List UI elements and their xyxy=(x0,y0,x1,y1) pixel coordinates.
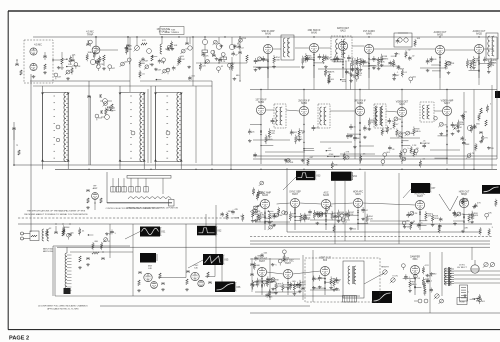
wire x148 vertical xyxy=(147,89,149,163)
component cluster top-mid B xyxy=(162,41,189,71)
components below V404 xyxy=(344,207,373,230)
wire x430 vertical xyxy=(429,252,431,313)
svg-text:DAMPER: DAMPER xyxy=(410,256,420,259)
bus wire y165 xyxy=(14,164,497,166)
capacitor C105 xyxy=(86,40,90,45)
wire x345 vertical xyxy=(344,181,346,241)
svg-text:V36: V36 xyxy=(236,286,241,289)
svg-text:MATCH 300: MATCH 300 xyxy=(43,250,53,253)
tube V202 6AU6 xyxy=(309,43,318,52)
caption lower-left 1 xyxy=(38,305,88,308)
interlock xyxy=(414,299,428,303)
svg-text:10K: 10K xyxy=(306,219,310,221)
svg-text:1MEG: 1MEG xyxy=(326,72,332,74)
wire sound row link3 xyxy=(319,47,331,49)
svg-text:V34: V34 xyxy=(353,175,358,178)
svg-text:470K: 470K xyxy=(99,64,104,66)
balun coil xyxy=(42,229,49,241)
svg-text:10K: 10K xyxy=(290,162,294,164)
svg-text:47K: 47K xyxy=(464,227,468,229)
wire vif link4 xyxy=(386,111,397,112)
svg-text:330K: 330K xyxy=(399,69,404,71)
svg-text:100K: 100K xyxy=(434,218,439,220)
svg-text:1MEG: 1MEG xyxy=(87,52,93,54)
component cluster antenna band xyxy=(45,225,85,239)
svg-text:2.2K: 2.2K xyxy=(369,218,374,220)
tube socket on T103 xyxy=(166,131,170,135)
wire sound row link4 xyxy=(352,45,364,47)
ground (trap) xyxy=(32,75,36,78)
capacitor C108 xyxy=(126,36,130,52)
label RATIO DET xyxy=(337,27,350,33)
components below V203 xyxy=(330,51,358,78)
wire x399 vertical xyxy=(398,173,400,244)
svg-text:2.2K: 2.2K xyxy=(204,56,209,58)
phase splitter V wires xyxy=(439,194,458,211)
mixer enclosure xyxy=(55,247,100,296)
component cluster sound row gap xyxy=(388,54,416,84)
wire x474 vertical xyxy=(473,90,475,170)
component cluster top band extra xyxy=(139,59,196,81)
wire x212 vertical xyxy=(211,81,213,165)
wire low link2 xyxy=(293,271,321,274)
tube V205 6AQ5 xyxy=(435,45,444,54)
svg-text:V33: V33 xyxy=(316,175,321,178)
svg-text:APPLICABLE NOTED 25, 75, MFD: APPLICABLE NOTED 25, 75, MFD xyxy=(47,308,79,311)
components below V402 xyxy=(282,208,312,230)
waveform inset W7 xyxy=(215,282,241,293)
svg-text:470K: 470K xyxy=(241,38,246,40)
svg-text:100K: 100K xyxy=(275,60,280,62)
svg-text:6BQ6: 6BQ6 xyxy=(461,194,468,196)
svg-text:1MEG: 1MEG xyxy=(72,66,78,68)
capacitor C112 xyxy=(185,37,189,44)
svg-text:V32: V32 xyxy=(217,230,222,233)
tube V503 6K6 xyxy=(320,266,329,275)
svg-text:47K: 47K xyxy=(271,133,275,135)
svg-text:AGC: AGC xyxy=(324,192,329,195)
svg-text:A COMPONENT FOLLOWED INDICATED: A COMPONENT FOLLOWED INDICATED CHANNELS xyxy=(38,305,88,308)
svg-text:FUSE: FUSE xyxy=(459,301,465,303)
svg-text:100K: 100K xyxy=(255,265,260,267)
pot R104 (volume) xyxy=(65,70,70,75)
svg-text:6SN7: 6SN7 xyxy=(417,196,423,198)
tube V403 6AU6 xyxy=(321,199,330,208)
left feed wire x14 xyxy=(13,122,15,165)
svg-text:1MEG: 1MEG xyxy=(253,285,259,287)
IF ladder transformer T101 xyxy=(41,93,70,162)
tube V108 agc xyxy=(100,99,112,104)
caption line 2 xyxy=(24,213,88,216)
tube V105 xyxy=(202,37,207,45)
bus wire y86 left xyxy=(33,85,212,87)
wire W2 riser xyxy=(205,214,207,226)
wire x89 vertical xyxy=(88,81,90,165)
IF ladder transformer T103 xyxy=(154,93,183,162)
wire vif row y140 xyxy=(253,138,420,142)
coil taps L1 xyxy=(67,255,72,290)
svg-text:6CB6: 6CB6 xyxy=(258,102,264,104)
fine tuning caption xyxy=(160,27,184,35)
component cluster damper area xyxy=(402,264,438,296)
wire x151 vertical xyxy=(150,86,152,163)
components below V405 xyxy=(406,210,439,230)
label AUDIO OUT xyxy=(473,30,486,36)
pix IF transformer T301 xyxy=(274,104,286,128)
wire vif row y152 xyxy=(265,150,460,154)
svg-text:1MEG: 1MEG xyxy=(411,284,417,286)
label AUDIO OUT xyxy=(434,31,447,37)
pix IF transformer T302 xyxy=(318,104,330,128)
svg-text:22K: 22K xyxy=(96,50,100,52)
svg-text:330K: 330K xyxy=(380,62,385,64)
component cluster sync band left-edge xyxy=(252,181,265,200)
pix IF transformer T303 xyxy=(374,104,386,128)
svg-text:HEIGHT: HEIGHT xyxy=(381,267,390,269)
wire top right drops xyxy=(268,53,479,90)
tube V501 6SN7 xyxy=(257,267,266,276)
svg-text:6SN7: 6SN7 xyxy=(292,194,298,196)
component cluster ratio out xyxy=(345,69,363,82)
wire x313 lower xyxy=(312,250,314,302)
svg-text:2.2K: 2.2K xyxy=(296,287,301,289)
dashed boundary y236 xyxy=(250,236,492,238)
tube V102 xyxy=(92,46,100,54)
label VERT OUT xyxy=(319,258,331,263)
svg-text:AMP: AMP xyxy=(93,187,98,190)
tube V106 xyxy=(216,37,222,49)
svg-text:330K: 330K xyxy=(270,292,275,294)
tube V305 6AC7 xyxy=(442,106,451,115)
wire mixer out xyxy=(158,277,186,279)
ant caption stack xyxy=(43,248,53,253)
svg-text:6AU6: 6AU6 xyxy=(323,194,329,197)
svg-text:330K: 330K xyxy=(465,144,470,146)
sound takeoff coil xyxy=(160,36,163,54)
svg-text:10K: 10K xyxy=(174,45,178,47)
wire x90.5 vertical xyxy=(90,96,92,165)
resistor R110 xyxy=(150,55,154,66)
bus wire y313 right xyxy=(250,312,500,314)
wire sound row link6 xyxy=(445,49,475,51)
svg-text:47K: 47K xyxy=(142,40,146,42)
label RF AMP xyxy=(93,186,98,191)
components below V302 xyxy=(290,116,319,164)
pointer to W8 xyxy=(403,189,411,198)
brightness pot xyxy=(434,294,444,304)
ratio det verticals xyxy=(346,58,355,90)
junction dots ant xyxy=(55,223,70,224)
resistor R106 xyxy=(102,55,106,70)
audio coupling box xyxy=(394,33,412,47)
tuner base bar xyxy=(107,200,174,207)
svg-text:6K6: 6K6 xyxy=(323,260,328,262)
sync enclosure xyxy=(287,168,480,232)
pointer to W1 xyxy=(125,231,141,239)
pointer to W6 xyxy=(188,260,203,268)
svg-text:10K: 10K xyxy=(402,132,406,134)
svg-text:470K: 470K xyxy=(329,154,334,156)
svg-text:V35: V35 xyxy=(224,259,229,262)
wire x133 vertical xyxy=(132,224,134,296)
tube V107 xyxy=(229,37,234,50)
wire y224 to tuner drop xyxy=(215,224,217,237)
B+ bus wire top xyxy=(33,36,497,38)
tube V406 6BQ6 xyxy=(459,198,468,207)
wire x365 vertical xyxy=(364,172,366,241)
components below V503 xyxy=(312,275,342,295)
bus wire y156 right xyxy=(253,155,497,157)
tube V401 6AU6 xyxy=(260,199,269,208)
ladder bottom stubs xyxy=(43,162,182,170)
svg-text:47K: 47K xyxy=(329,206,333,208)
bus wire y247 xyxy=(57,246,490,248)
components below V305 xyxy=(434,116,465,164)
IF ladder transformer T102 xyxy=(119,93,146,162)
svg-text:6AL5: 6AL5 xyxy=(355,193,361,196)
svg-text:V LIN: V LIN xyxy=(392,276,398,278)
bus wire y244 xyxy=(250,243,490,245)
svg-text:100K: 100K xyxy=(292,216,297,218)
svg-text:6AV6: 6AV6 xyxy=(366,33,372,36)
tube V103 grid circle xyxy=(147,49,152,54)
svg-text:TRAP: TRAP xyxy=(87,33,94,36)
tube V301 6CB6 xyxy=(256,105,265,114)
tube V306 socket xyxy=(467,125,472,130)
svg-text:6AL5: 6AL5 xyxy=(399,103,405,106)
svg-text:2.2K: 2.2K xyxy=(412,145,417,147)
components below V504 xyxy=(403,274,433,295)
label 1ST AUDIO xyxy=(363,30,375,36)
tube V203 6AL5 xyxy=(338,41,347,50)
svg-text:4.7K: 4.7K xyxy=(470,153,475,155)
wire x216 vertical xyxy=(215,205,217,254)
resistor R116 xyxy=(246,55,249,63)
wire vert row y292 xyxy=(255,290,340,292)
components below V303 xyxy=(346,116,376,164)
left margin marks xyxy=(15,59,22,75)
svg-text:470K: 470K xyxy=(449,63,454,65)
tube V206 6AQ5 xyxy=(474,44,483,53)
svg-text:RECEIVER MAKE IT POSSIBLE TO S: RECEIVER MAKE IT POSSIBLE TO SERIAL YOU … xyxy=(24,213,88,216)
capacitor C116 xyxy=(238,37,242,53)
electrolytic stack xyxy=(460,285,468,301)
tube V302 6CB6 xyxy=(299,106,308,115)
label VLIN pot xyxy=(390,276,398,284)
resistor R3 xyxy=(78,256,82,269)
wire v102 plate xyxy=(95,36,96,46)
wire x335 vertical xyxy=(334,181,336,244)
tube V405 6SN7 xyxy=(415,200,424,209)
component cluster right col xyxy=(461,104,495,159)
label AGC xyxy=(323,192,329,198)
bus wire y159 right xyxy=(253,158,497,160)
component cluster sync left xyxy=(253,205,280,230)
tube V502 6SN7 xyxy=(283,269,292,278)
wire sync link3 xyxy=(331,203,354,204)
svg-text:100K: 100K xyxy=(473,215,478,217)
components below V502 xyxy=(274,279,306,296)
diag wire to pots xyxy=(364,274,383,285)
svg-text:330K: 330K xyxy=(457,127,462,129)
tube socket on T102 xyxy=(131,131,135,135)
sound IF transformer T201 xyxy=(281,35,294,60)
wire y296 long xyxy=(100,295,360,297)
svg-text:22K: 22K xyxy=(491,65,495,67)
resistor R101 xyxy=(43,64,47,74)
waveform inset W1 (sine) xyxy=(140,227,166,237)
tube V109 agc xyxy=(101,115,109,120)
svg-text:1MEG: 1MEG xyxy=(415,131,421,133)
svg-text:4.7K: 4.7K xyxy=(443,124,448,126)
video det peaking box xyxy=(420,102,434,122)
svg-text:3RD PIX IF: 3RD PIX IF xyxy=(354,101,366,103)
components below V406 xyxy=(453,208,479,230)
tube V101B xyxy=(30,63,37,70)
svg-text:47K: 47K xyxy=(469,63,473,65)
wire lowright h1 xyxy=(250,258,300,260)
svg-text:22K: 22K xyxy=(72,55,76,57)
antenna terminal xyxy=(21,232,31,240)
svg-text:HOR OUT: HOR OUT xyxy=(459,192,470,194)
top black inset (cut) xyxy=(495,91,500,98)
tube V2b xyxy=(151,282,158,289)
resistor R1 xyxy=(62,230,65,236)
tuner shaft bar xyxy=(127,176,171,179)
label VERT INT xyxy=(257,259,268,264)
wire vif link5 xyxy=(434,110,442,112)
wire vif link2 xyxy=(286,110,299,111)
coil L1 dark base xyxy=(64,288,71,294)
capacitor C2 xyxy=(68,234,72,235)
label 2ND SND IF xyxy=(308,30,321,35)
component cluster top-left B xyxy=(86,40,116,71)
svg-text:1ST AUDIO: 1ST AUDIO xyxy=(363,30,375,33)
wire osc link xyxy=(205,265,215,277)
svg-text:4.7K: 4.7K xyxy=(424,265,429,267)
capacitor C121 xyxy=(100,94,101,98)
heater bus right y90 xyxy=(250,89,497,91)
svg-text:10K: 10K xyxy=(161,62,165,64)
component cluster sync right edge xyxy=(461,197,498,236)
svg-text:470K: 470K xyxy=(278,215,283,217)
waveform inset W2 xyxy=(197,226,222,236)
label SYNC SEP xyxy=(289,192,301,197)
waveform inset W3 xyxy=(296,171,321,180)
tube V2 mixer xyxy=(144,273,152,281)
wire x196 vertical xyxy=(195,86,197,163)
wire sync row y222 xyxy=(255,220,410,222)
svg-text:V37: V37 xyxy=(431,187,436,190)
component cluster top-mid A xyxy=(120,45,162,71)
junction dots top bus xyxy=(178,36,240,37)
capacitor C111 xyxy=(165,47,169,51)
svg-text:1MEG: 1MEG xyxy=(296,139,302,141)
svg-text:4.5 MC: 4.5 MC xyxy=(34,44,42,47)
svg-text:2.2K: 2.2K xyxy=(413,213,418,215)
waveform inset W5 xyxy=(140,253,157,263)
svg-text:6AC7: 6AC7 xyxy=(444,102,450,105)
svg-text:2.2K: 2.2K xyxy=(322,213,327,215)
label HEIGHT pot xyxy=(381,267,390,276)
capacitor C101 xyxy=(43,52,47,60)
components below V206 xyxy=(466,54,497,78)
resistor R4 xyxy=(92,252,99,254)
caption lower-left 2 xyxy=(47,308,79,311)
wire x240 drop xyxy=(239,53,240,81)
svg-text:2.2K: 2.2K xyxy=(301,284,306,286)
mixer components xyxy=(137,272,165,292)
tube V3 osc xyxy=(191,272,199,280)
osc components xyxy=(185,271,212,291)
bus wire y81 left xyxy=(30,80,212,82)
svg-text:6AU6: 6AU6 xyxy=(265,33,271,36)
wire x270 lower xyxy=(269,258,271,300)
ratio det transformer T202 xyxy=(331,36,352,61)
svg-text:CONTROL SELECTOR NOTED RATING: CONTROL SELECTOR NOTED RATING 5 CHANNEL … xyxy=(106,207,159,210)
front end enclosure top xyxy=(53,246,130,296)
waveform inset W8 xyxy=(411,183,436,193)
pointer to W3 xyxy=(283,177,296,190)
wire sound row link5 xyxy=(374,48,436,50)
components below V301 xyxy=(248,115,278,164)
caption mid xyxy=(106,207,159,210)
dashed boundary y218 xyxy=(18,217,238,219)
resistor R113 xyxy=(202,45,208,58)
bus wire y306 left xyxy=(100,305,310,307)
svg-text:AUDIO OUT: AUDIO OUT xyxy=(434,31,447,34)
component cluster agc mid xyxy=(95,102,116,121)
capacitor C1 xyxy=(54,226,58,233)
svg-text:4.7K: 4.7K xyxy=(483,138,488,140)
wire x222 drop xyxy=(221,265,223,282)
svg-text:6AL5: 6AL5 xyxy=(340,30,346,33)
bus wire y224 xyxy=(18,223,492,225)
svg-text:47K: 47K xyxy=(429,275,433,277)
wire x130 drop xyxy=(129,37,131,92)
svg-text:PAGE 2: PAGE 2 xyxy=(9,336,29,342)
svg-text:22K: 22K xyxy=(471,218,475,220)
wire sound row link1 xyxy=(273,48,281,50)
component cluster yoke xyxy=(463,292,485,305)
matching unit xyxy=(30,231,39,241)
svg-text:6AU6: 6AU6 xyxy=(311,32,317,35)
junction dots buses xyxy=(88,36,479,170)
wire mid drops xyxy=(261,90,447,108)
svg-text:470K: 470K xyxy=(277,286,282,288)
component cluster sync mid xyxy=(302,206,357,233)
components below V205 xyxy=(426,55,455,78)
tube V201 6AU6 xyxy=(263,44,272,53)
tuner coil strip xyxy=(128,197,171,199)
ladder top feeds xyxy=(43,86,156,93)
resistor R109 xyxy=(141,40,147,45)
capacitor C5 xyxy=(101,258,105,259)
label 3RD PIX IF xyxy=(354,101,366,106)
bus wire y241 xyxy=(250,240,490,242)
svg-text:4.7K: 4.7K xyxy=(269,282,274,284)
tuner drop wires xyxy=(107,172,163,203)
components below V401 xyxy=(251,209,283,230)
component cluster top band extra2 xyxy=(205,50,241,80)
svg-text:2.2K: 2.2K xyxy=(68,61,73,63)
svg-text:SYNC SEP: SYNC SEP xyxy=(289,192,301,194)
svg-text:HOR OSC: HOR OSC xyxy=(415,194,426,196)
PAGE 2 footer text xyxy=(9,336,29,342)
svg-text:1MEG: 1MEG xyxy=(259,193,265,195)
tube V303 6CB6 xyxy=(355,106,364,115)
tuner caption xyxy=(126,207,178,210)
